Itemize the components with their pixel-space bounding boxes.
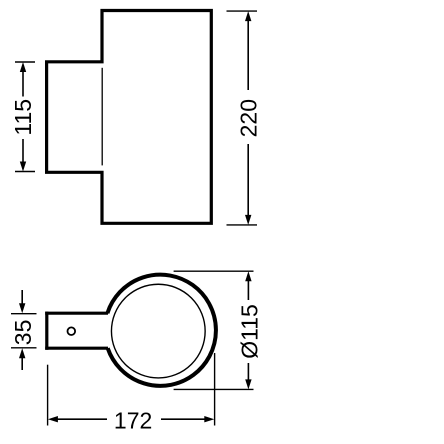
wire: thin joint line side view	[101, 68, 103, 166]
dimension 35 ticks	[11, 313, 37, 315]
svg-text:115: 115	[10, 99, 36, 136]
svg-text:35: 35	[10, 320, 36, 346]
svg-text:Ø115: Ø115	[237, 304, 263, 359]
dimension 220 arrows and shafts	[247, 16, 249, 90]
dimension 35 arrows and shafts	[21, 290, 23, 305]
dimension 172 line and arrows	[53, 418, 107, 420]
dimension D115 arrows and shafts	[247, 276, 249, 300]
plan-view inner circle	[111, 284, 205, 378]
dimension D115 ticks	[174, 270, 254, 272]
dimension 115 ticks	[15, 61, 35, 63]
dimension 220 ticks	[227, 10, 258, 12]
luminaire plan-view outer circle (gap at bracket)	[107, 275, 216, 386]
mounting bracket	[45, 312, 48, 350]
bracket hole	[68, 327, 76, 335]
dimension 172 extension lines	[47, 365, 49, 426]
svg-text:220: 220	[235, 99, 261, 137]
svg-text:172: 172	[114, 407, 152, 433]
dimension 115 arrows and shafts	[22, 66, 24, 97]
luminaire side-view outline	[47, 11, 212, 224]
